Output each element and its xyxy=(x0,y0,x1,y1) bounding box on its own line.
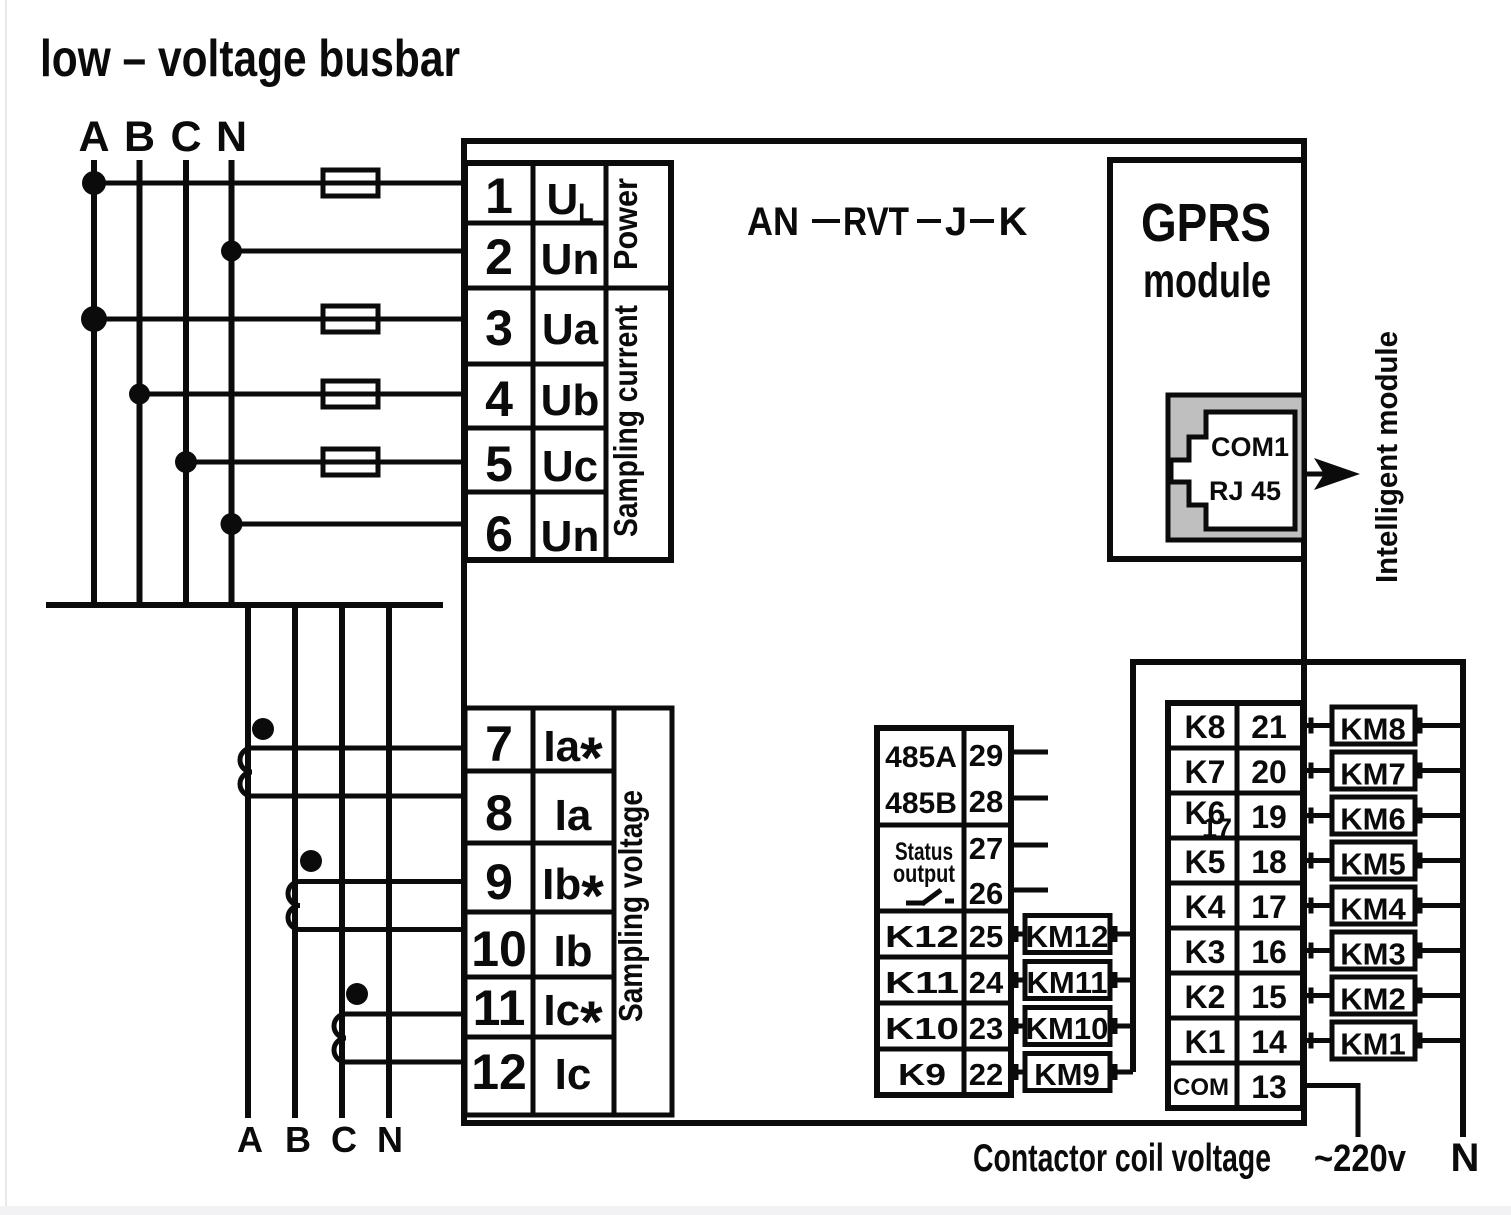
svg-text:14: 14 xyxy=(1251,1024,1287,1060)
junction dot wire5-C xyxy=(175,451,197,473)
svg-text:AN: AN xyxy=(747,200,799,244)
svg-text:K1: K1 xyxy=(1185,1024,1226,1060)
svg-text:24: 24 xyxy=(969,965,1004,1000)
svg-text:4: 4 xyxy=(485,371,513,427)
wire: phase line C (top) xyxy=(183,160,189,605)
svg-text:N: N xyxy=(216,113,247,161)
relay output bus frame xyxy=(1133,662,1463,1137)
svg-text:A: A xyxy=(237,1119,263,1160)
wire to terminal 12 xyxy=(346,1060,465,1065)
junction dot wire3-A xyxy=(81,306,107,332)
svg-text:K3: K3 xyxy=(1185,934,1226,970)
wire: phase line A (top) xyxy=(91,160,97,605)
svg-text:3: 3 xyxy=(485,300,513,356)
svg-text:K2: K2 xyxy=(1185,979,1226,1015)
wire: branch C (bottom) xyxy=(339,605,345,1118)
svg-text:21: 21 xyxy=(1251,709,1287,745)
svg-text:16: 16 xyxy=(1251,934,1287,970)
contactor coil KM3 xyxy=(1304,932,1463,972)
svg-text:17: 17 xyxy=(1251,889,1287,925)
GPRS module box U-GPRS xyxy=(1110,160,1304,559)
terminal block 1-6 xyxy=(465,163,671,560)
current transformer CT-C coil xyxy=(334,1014,346,1062)
svg-text:Ub: Ub xyxy=(541,376,600,425)
svg-text:K: K xyxy=(999,200,1028,244)
svg-text:Ia: Ia xyxy=(555,791,592,840)
svg-text:6: 6 xyxy=(485,506,513,562)
svg-text:KM6: KM6 xyxy=(1340,802,1405,837)
svg-text:KM4: KM4 xyxy=(1340,892,1406,927)
stub wire pin26 xyxy=(1011,888,1048,893)
low voltage busbar horizontal bar xyxy=(46,602,443,608)
CT-A polarity dot xyxy=(252,718,274,740)
svg-text:low – voltage busbar: low – voltage busbar xyxy=(40,30,460,88)
wire: phase line N (top) xyxy=(229,160,235,605)
svg-text:B: B xyxy=(285,1119,311,1160)
svg-text:Ib: Ib xyxy=(553,927,592,976)
svg-text:Un: Un xyxy=(541,512,600,561)
contactor coil KM2 xyxy=(1304,977,1463,1017)
svg-text:26: 26 xyxy=(969,876,1003,911)
terminal block 7-12 xyxy=(465,708,672,1115)
junction dot wire4-B xyxy=(129,384,150,405)
wire: branch B (bottom) xyxy=(292,605,298,1118)
svg-text:11: 11 xyxy=(473,980,526,1036)
CT-B polarity dot xyxy=(300,850,322,872)
arrow to intelligent module xyxy=(1304,458,1360,490)
svg-text:GPRS: GPRS xyxy=(1141,193,1271,253)
svg-text:15: 15 xyxy=(1251,979,1287,1015)
current transformer CT-A coil xyxy=(240,748,252,796)
contactor coil KM11 xyxy=(1011,962,1133,1001)
svg-text:K5: K5 xyxy=(1185,844,1226,880)
svg-text:485A: 485A xyxy=(885,741,957,774)
page left faint edge xyxy=(5,0,7,1206)
svg-text:25: 25 xyxy=(969,919,1003,954)
wire to terminal 7 xyxy=(252,746,465,751)
svg-text:C: C xyxy=(170,113,201,161)
svg-text:29: 29 xyxy=(969,738,1003,773)
junction dot wire2-N xyxy=(221,241,242,262)
svg-text:KM5: KM5 xyxy=(1340,847,1405,882)
svg-text:K8: K8 xyxy=(1185,709,1226,745)
contactor coil KM12 xyxy=(1011,916,1133,955)
svg-text:Power: Power xyxy=(607,178,644,270)
device label AN-RVT-J-K xyxy=(747,200,1028,244)
svg-text:2: 2 xyxy=(485,229,513,285)
svg-text:1: 1 xyxy=(485,168,513,224)
controller main box AN-RVT-J-K xyxy=(464,141,1304,1123)
svg-text:RVT: RVT xyxy=(843,200,909,244)
wire to terminal 4 xyxy=(140,392,466,397)
wire pin13 to 220v xyxy=(1304,1086,1358,1138)
svg-text:RJ 45: RJ 45 xyxy=(1209,476,1281,506)
svg-text:Contactor coil voltage: Contactor coil voltage xyxy=(973,1137,1271,1180)
svg-text:9: 9 xyxy=(485,854,513,910)
wire: branch A (bottom) xyxy=(245,605,251,1118)
junction dot wire1-A xyxy=(82,171,106,195)
svg-text:KM12: KM12 xyxy=(1026,919,1109,954)
wire to terminal 2 xyxy=(232,249,466,254)
svg-text:28: 28 xyxy=(969,784,1003,819)
svg-text:K11: K11 xyxy=(885,965,959,1000)
svg-text:KM2: KM2 xyxy=(1340,982,1405,1017)
svg-text:12: 12 xyxy=(471,1044,527,1100)
contactor coil KM5 xyxy=(1304,842,1463,882)
svg-text:10: 10 xyxy=(471,921,527,977)
svg-text:23: 23 xyxy=(969,1011,1003,1046)
svg-text:KM1: KM1 xyxy=(1340,1027,1405,1062)
svg-text:K10: K10 xyxy=(885,1011,959,1046)
svg-text:COM: COM xyxy=(1173,1074,1229,1101)
svg-text:13: 13 xyxy=(1251,1069,1287,1105)
svg-text:N: N xyxy=(377,1119,403,1160)
svg-text:20: 20 xyxy=(1251,754,1287,790)
svg-text:K12: K12 xyxy=(885,919,959,954)
contactor coil KM7 xyxy=(1304,752,1463,792)
svg-text:KM7: KM7 xyxy=(1340,757,1405,792)
CT-C polarity dot xyxy=(346,983,368,1005)
svg-text:B: B xyxy=(124,113,155,161)
wire to terminal 6 xyxy=(232,522,466,527)
svg-text:J: J xyxy=(945,200,967,244)
switch icon xyxy=(906,890,954,904)
junction dot wire6-N xyxy=(221,513,243,535)
svg-text:~220v: ~220v xyxy=(1314,1138,1406,1180)
contactor coil KM4 xyxy=(1304,887,1463,927)
contactor coil KM8 xyxy=(1304,707,1463,747)
stub wire pin27 xyxy=(1011,843,1048,848)
fuse F3 xyxy=(323,381,378,407)
svg-text:module: module xyxy=(1143,255,1271,308)
svg-text:19: 19 xyxy=(1251,799,1287,835)
stub wire pin28 xyxy=(1011,796,1048,801)
svg-text:Intelligent module: Intelligent module xyxy=(1369,331,1404,583)
svg-text:Un: Un xyxy=(541,235,600,284)
fuse F4 xyxy=(323,449,378,475)
svg-text:KM11: KM11 xyxy=(1027,965,1108,1000)
svg-text:5: 5 xyxy=(485,436,513,492)
contactor coil KM1 xyxy=(1304,1022,1463,1062)
svg-text:A: A xyxy=(78,113,109,161)
wire: branch N (bottom) xyxy=(386,605,392,1118)
svg-text:K4: K4 xyxy=(1185,889,1226,925)
svg-text:Uc: Uc xyxy=(542,442,598,491)
svg-text:KM8: KM8 xyxy=(1340,712,1405,747)
svg-text:N: N xyxy=(1451,1136,1480,1180)
terminal block 485/status/K9-K12 xyxy=(877,728,1011,1095)
svg-text:Sampling voltage: Sampling voltage xyxy=(612,790,649,1022)
wire to terminal 8 xyxy=(252,794,465,799)
page bottom strip xyxy=(0,1206,1511,1215)
svg-text:27: 27 xyxy=(969,831,1003,866)
wire to terminal 5 xyxy=(186,460,465,465)
svg-text:7: 7 xyxy=(485,716,513,772)
svg-text:C: C xyxy=(331,1119,357,1160)
wire to terminal 9 xyxy=(300,879,465,884)
wire: phase line B (top) xyxy=(137,160,143,605)
wire to terminal 3 xyxy=(94,317,465,322)
svg-text:18: 18 xyxy=(1251,844,1287,880)
svg-text:output: output xyxy=(893,860,956,888)
terminal block K1-K8/COM xyxy=(1168,703,1303,1108)
svg-text:17: 17 xyxy=(1202,813,1232,843)
contactor coil KM9 xyxy=(1011,1054,1133,1093)
fuse F2 xyxy=(323,306,378,332)
svg-text:K9: K9 xyxy=(898,1057,946,1092)
wire to terminal 1 xyxy=(94,181,465,186)
contactor coil KM10 xyxy=(1011,1008,1133,1047)
svg-text:KM3: KM3 xyxy=(1340,937,1405,972)
current transformer CT-B coil xyxy=(288,882,300,930)
svg-text:Ua: Ua xyxy=(542,305,599,354)
svg-text:485B: 485B xyxy=(885,787,957,820)
stub wire pin29 xyxy=(1011,750,1048,755)
svg-text:COM1: COM1 xyxy=(1211,432,1289,462)
wire to terminal 11 xyxy=(346,1012,465,1017)
svg-text:KM9: KM9 xyxy=(1034,1057,1099,1092)
contactor coil KM6 xyxy=(1304,797,1463,837)
svg-text:Ic: Ic xyxy=(555,1050,592,1099)
svg-text:KM10: KM10 xyxy=(1026,1011,1109,1046)
RJ45 socket J1 xyxy=(1168,395,1304,540)
svg-text:Sampling current: Sampling current xyxy=(607,305,644,537)
wire to terminal 10 xyxy=(300,927,465,932)
fuse F1 xyxy=(323,170,378,196)
svg-text:K7: K7 xyxy=(1185,754,1226,790)
svg-text:22: 22 xyxy=(969,1057,1003,1092)
svg-text:8: 8 xyxy=(485,785,513,841)
